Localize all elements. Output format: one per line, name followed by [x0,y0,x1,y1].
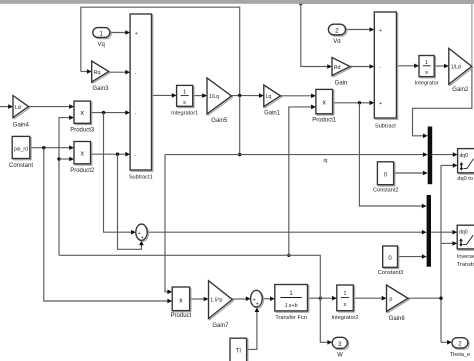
product Product3 [75,102,92,124]
wire Product2 to Subtract1 port4 [91,153,126,155]
svg-text:Gain3: Gain3 [92,86,109,92]
svg-text:Gain6: Gain6 [389,316,406,322]
svg-text:Integrator1: Integrator1 [171,111,198,117]
wire Tl to Sum2 bottom input [247,312,257,350]
wire Product1 branch down to Mux2 input1 [358,101,361,104]
sum block Subtract [376,13,398,119]
outport Theta_e [453,339,469,349]
integrator Integrator1 [178,87,194,108]
wire iq branch down to iq line [239,96,241,155]
svg-text:+: + [379,101,382,107]
gain Gain2 [450,50,473,86]
gain Gain3 [93,62,110,83]
svg-text:Theta_e: Theta_e [450,352,471,358]
wire Gain4 to Product3 port1 [29,106,70,108]
svg-text:Rd: Rd [334,65,341,71]
svg-text:Lq: Lq [266,94,272,100]
svg-text:x: x [179,297,183,304]
svg-text:Product: Product [171,313,192,319]
wire Subtract to Integrator [396,65,414,67]
svg-text:Vq: Vq [98,42,105,48]
svg-text:Gain7: Gain7 [212,323,229,329]
svg-text:iq: iq [324,158,328,164]
svg-text:1: 1 [183,90,186,96]
mux Mux1 [428,127,433,185]
svg-text:s: s [344,302,347,308]
transform block Inverse Transform [459,227,474,251]
inport Vq [94,29,111,39]
svg-text:Ld: Ld [15,105,21,111]
svg-text:+: + [141,235,144,241]
svg-text:x: x [322,99,326,106]
wire Integrator to Gain2 [434,65,444,67]
wire Constant2 to Mux1 input3 [394,172,424,174]
wire Sum1 output to Mux2 input2 [147,231,422,233]
svg-text:J.s+b: J.s+b [285,303,298,309]
svg-text:Gain4: Gain4 [13,123,30,129]
toolbar top bar [0,0,474,4]
constant psi_rd [14,138,32,160]
mux Mux2 [427,195,431,267]
svg-text:s: s [425,70,428,76]
svg-text:+: + [379,28,382,34]
constant Tl [231,340,248,361]
svg-text:x: x [80,150,84,157]
svg-text:Gain2: Gain2 [452,87,469,93]
svg-text:Transfo: Transfo [457,262,474,268]
svg-text:W: W [337,353,343,359]
svg-text:s: s [183,100,186,106]
constant Constant3 [384,247,399,268]
svg-text:1.5*p: 1.5*p [210,298,222,304]
integrator Integrator2 [338,286,355,312]
svg-text:psi_rd: psi_rd [14,146,28,152]
svg-text:Product3: Product3 [70,128,95,134]
wire speed w vertical to Product3 port2 and Product2 port2 [59,118,70,256]
wire Product to Gain7 [190,298,204,300]
gain Gain Rd [333,59,351,77]
wire Gain6 to theta junction [408,297,441,299]
wire w branch psi_rd junction down to Product port2 [42,146,45,149]
wire Integrator2 to Gain6 [353,297,382,299]
svg-text:Constant3: Constant3 [378,270,404,276]
svg-text:x: x [80,110,84,117]
svg-text:Gain5: Gain5 [211,118,228,124]
wire iq feedback loop top to Gain3 [81,7,240,95]
wire Vd to Subtract port1 [346,29,370,31]
wire psi_rd Constant to Product2 port1 [30,147,70,149]
svg-text:Product2: Product2 [70,168,95,174]
wire theta_e stub to Inverse Transform port2 [441,242,453,244]
wire Product3 to Subtract1 port3 [91,112,126,114]
wire id top rail under toolbar [301,2,472,4]
wire theta_e stub to dq0-to-abc port2 [441,164,453,166]
svg-text:1: 1 [343,291,346,297]
wire Product1 to Subtract port3 [333,102,370,104]
wire Mux2 to Inverse Transform port1 [431,231,453,233]
inport Vd [330,26,347,37]
svg-text:Product1: Product1 [312,118,337,124]
svg-text:Vd: Vd [333,39,340,45]
wire Mux1 to dq0-to-abc port1 [432,154,453,156]
wire w up to Product1 port2 [287,254,290,257]
wire Constant3 to Mux2 input3 [398,256,423,258]
transform block dq0 to abc [459,150,474,174]
wire Transfer Fcn to Integrator2 [308,297,333,299]
wire theta_e to Theta_e outport [441,341,447,343]
svg-text:1/Ld: 1/Ld [451,64,461,70]
svg-text:Gain1: Gain1 [264,111,281,117]
svg-text:dq0: dq0 [459,153,468,159]
wire Subtract1 to Integrator1 [152,94,173,96]
product Product2 [75,143,92,165]
wire Gain3 to Subtract1 port2 [109,71,126,73]
wire theta_e vertical [440,165,442,342]
wire iq line left end down to Product port1 [165,155,168,292]
svg-text:Integrator: Integrator [415,81,439,87]
wire Vq to Subtract1 port1 [110,32,126,34]
svg-text:Rq: Rq [94,70,101,76]
svg-text:Subtract: Subtract [375,124,396,130]
gain Gain1 [265,86,282,108]
wire Product2 branch down to Sum1 bottom input [116,153,119,156]
product Product [174,288,191,312]
gain Gain5 [208,79,233,115]
product Product1 [317,91,334,115]
wire w down to W outport [320,298,327,342]
svg-text:Transfer Fcn: Transfer Fcn [275,315,307,321]
gain Gain7 [210,282,234,320]
integrator Integrator [420,57,435,78]
svg-text:Constant2: Constant2 [373,188,399,194]
sum junction Sum2 [252,291,264,308]
gain Gain6 [388,286,410,313]
svg-text:1/Lq: 1/Lq [209,94,219,100]
svg-text:+: + [256,302,259,308]
outport W [334,339,349,350]
svg-text:Tl: Tl [236,349,241,355]
svg-text:p: p [389,297,392,303]
svg-text:+: + [135,31,138,37]
wire w feedback from Transfer Fcn junction [319,297,322,300]
wire Gain7 to Sum2 [232,298,246,300]
wire Gain1 to Product1 port1 [280,95,311,97]
svg-text:Constant: Constant [9,163,33,169]
transfer function Transfer Fcn [276,286,309,312]
wire id top feed to Gain Rd [299,2,302,5]
svg-text:1: 1 [425,60,428,66]
svg-text:dq0 to a: dq0 to a [457,176,474,182]
sum block Subtract1 [131,15,152,171]
wire Product3 branch down to Sum1 left input [102,111,105,114]
sum junction Sum1 [137,225,148,241]
svg-text:Integrator2: Integrator2 [331,315,358,321]
svg-text:Gain: Gain [335,81,348,87]
wire iq line to Mux1 input2 [165,154,423,156]
gain Gain4 [14,97,30,119]
wire id feedback right edge down [471,3,473,66]
wire Gain Rd to Subtract port2 [350,66,370,68]
wire Gain5 to Gain1 with iq junction [232,95,260,97]
svg-text:Inverse: Inverse [457,254,474,260]
constant Constant2 [379,163,395,186]
svg-text:dq0: dq0 [459,229,468,235]
wire Integrator1 to Gain5 [193,95,203,97]
wire Ld input from left edge [0,106,9,108]
wire Sum2 to Transfer Fcn [262,298,270,300]
svg-text:Subtract1: Subtract1 [129,175,153,181]
